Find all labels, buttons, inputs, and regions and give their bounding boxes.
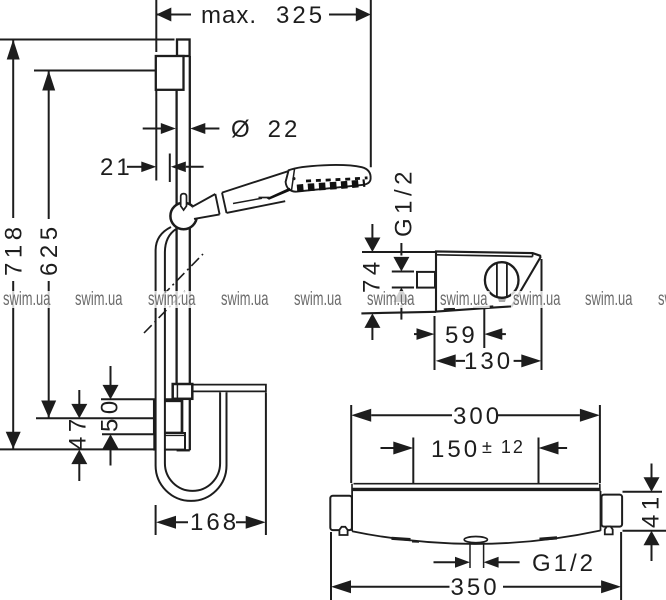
hand shower slider knob (170, 194, 196, 230)
right connector (602, 495, 623, 527)
svg-text:300: 300 (453, 403, 502, 430)
hand shower handle (193, 171, 289, 219)
svg-text:41: 41 (638, 492, 665, 528)
release pin (181, 194, 187, 210)
side view: G1/2 label (391, 167, 418, 320)
body sides (351, 491, 353, 531)
svg-text:325: 325 (276, 2, 325, 29)
wall line (155, 90, 157, 181)
drain spout (464, 537, 487, 543)
shower hose (156, 227, 227, 501)
dimension 168 (156, 392, 266, 536)
dimension 350 (331, 532, 621, 600)
dimension 47 (65, 390, 92, 481)
svg-text:150: 150 (431, 436, 480, 463)
svg-text:± 12: ± 12 (482, 437, 525, 457)
svg-text:625: 625 (36, 222, 63, 276)
side view thermostat body (361, 251, 540, 313)
side view knob foot (498, 297, 507, 303)
svg-text:130: 130 (464, 348, 513, 375)
lower bracket lip (154, 433, 185, 450)
bottom ticks (392, 538, 411, 539)
dimension 74 (359, 224, 386, 340)
svg-text:50: 50 (97, 396, 124, 432)
dimension 130 (436, 259, 542, 375)
mounting feet ticks (444, 308, 455, 312)
dimension 300 (351, 403, 600, 483)
dimension G1/2 front (434, 550, 597, 577)
dimension max. 325 (156, 0, 370, 167)
svg-text:74: 74 (359, 257, 386, 293)
hand shower head (286, 165, 371, 192)
spray face dots (297, 178, 368, 189)
lower wall bracket (154, 401, 182, 433)
rail break mark (144, 254, 203, 333)
dimension 21 (100, 154, 204, 183)
svg-text:47: 47 (65, 414, 92, 450)
dimension 625 (34, 71, 156, 419)
dimension 59 (414, 308, 506, 370)
dimension diameter 22 (143, 116, 301, 143)
shower rail (177, 40, 190, 451)
svg-text:718: 718 (1, 222, 28, 276)
svg-text:max.: max. (201, 2, 257, 29)
front view thermostat (330, 484, 622, 568)
svg-text:Ø 22: Ø 22 (231, 116, 300, 143)
watermark row (1, 291, 52, 308)
bottom arc (352, 531, 600, 544)
svg-text:G1/2: G1/2 (532, 550, 596, 577)
svg-text:168: 168 (190, 509, 239, 536)
upper wall bracket (156, 56, 184, 90)
dimension 150 +/- 12 (381, 436, 568, 483)
holder arm (192, 385, 266, 392)
slider holder body (173, 384, 193, 399)
svg-text:21: 21 (100, 154, 133, 181)
dimension 718 (0, 40, 175, 450)
top plate (354, 483, 599, 485)
handle select button (233, 188, 292, 204)
dimension 41 (623, 464, 666, 562)
svg-text:59: 59 (445, 322, 478, 349)
svg-text:G1/2: G1/2 (391, 167, 418, 237)
left connector (330, 496, 352, 530)
inlet square (417, 272, 435, 288)
side view knob (485, 262, 519, 298)
dimension 50 (97, 366, 173, 466)
svg-text:350: 350 (451, 574, 500, 600)
